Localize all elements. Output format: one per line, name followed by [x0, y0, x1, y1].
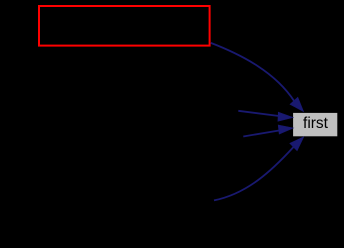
node: red-bordered box (truncated node): [39, 6, 210, 46]
arrowhead top edge: [290, 97, 304, 111]
wire: edge from red box to first (top curve): [211, 43, 294, 101]
node first: grey box: [293, 112, 338, 136]
svg-text:first: first: [303, 115, 329, 132]
wire: edge middle upper: [238, 111, 279, 116]
wire: edge bottom curve: [214, 147, 294, 200]
arrowhead middle upper: [278, 112, 293, 121]
arrowhead bottom edge: [290, 137, 304, 151]
arrowhead middle lower: [278, 125, 293, 134]
wire: edge middle lower: [243, 130, 280, 136]
